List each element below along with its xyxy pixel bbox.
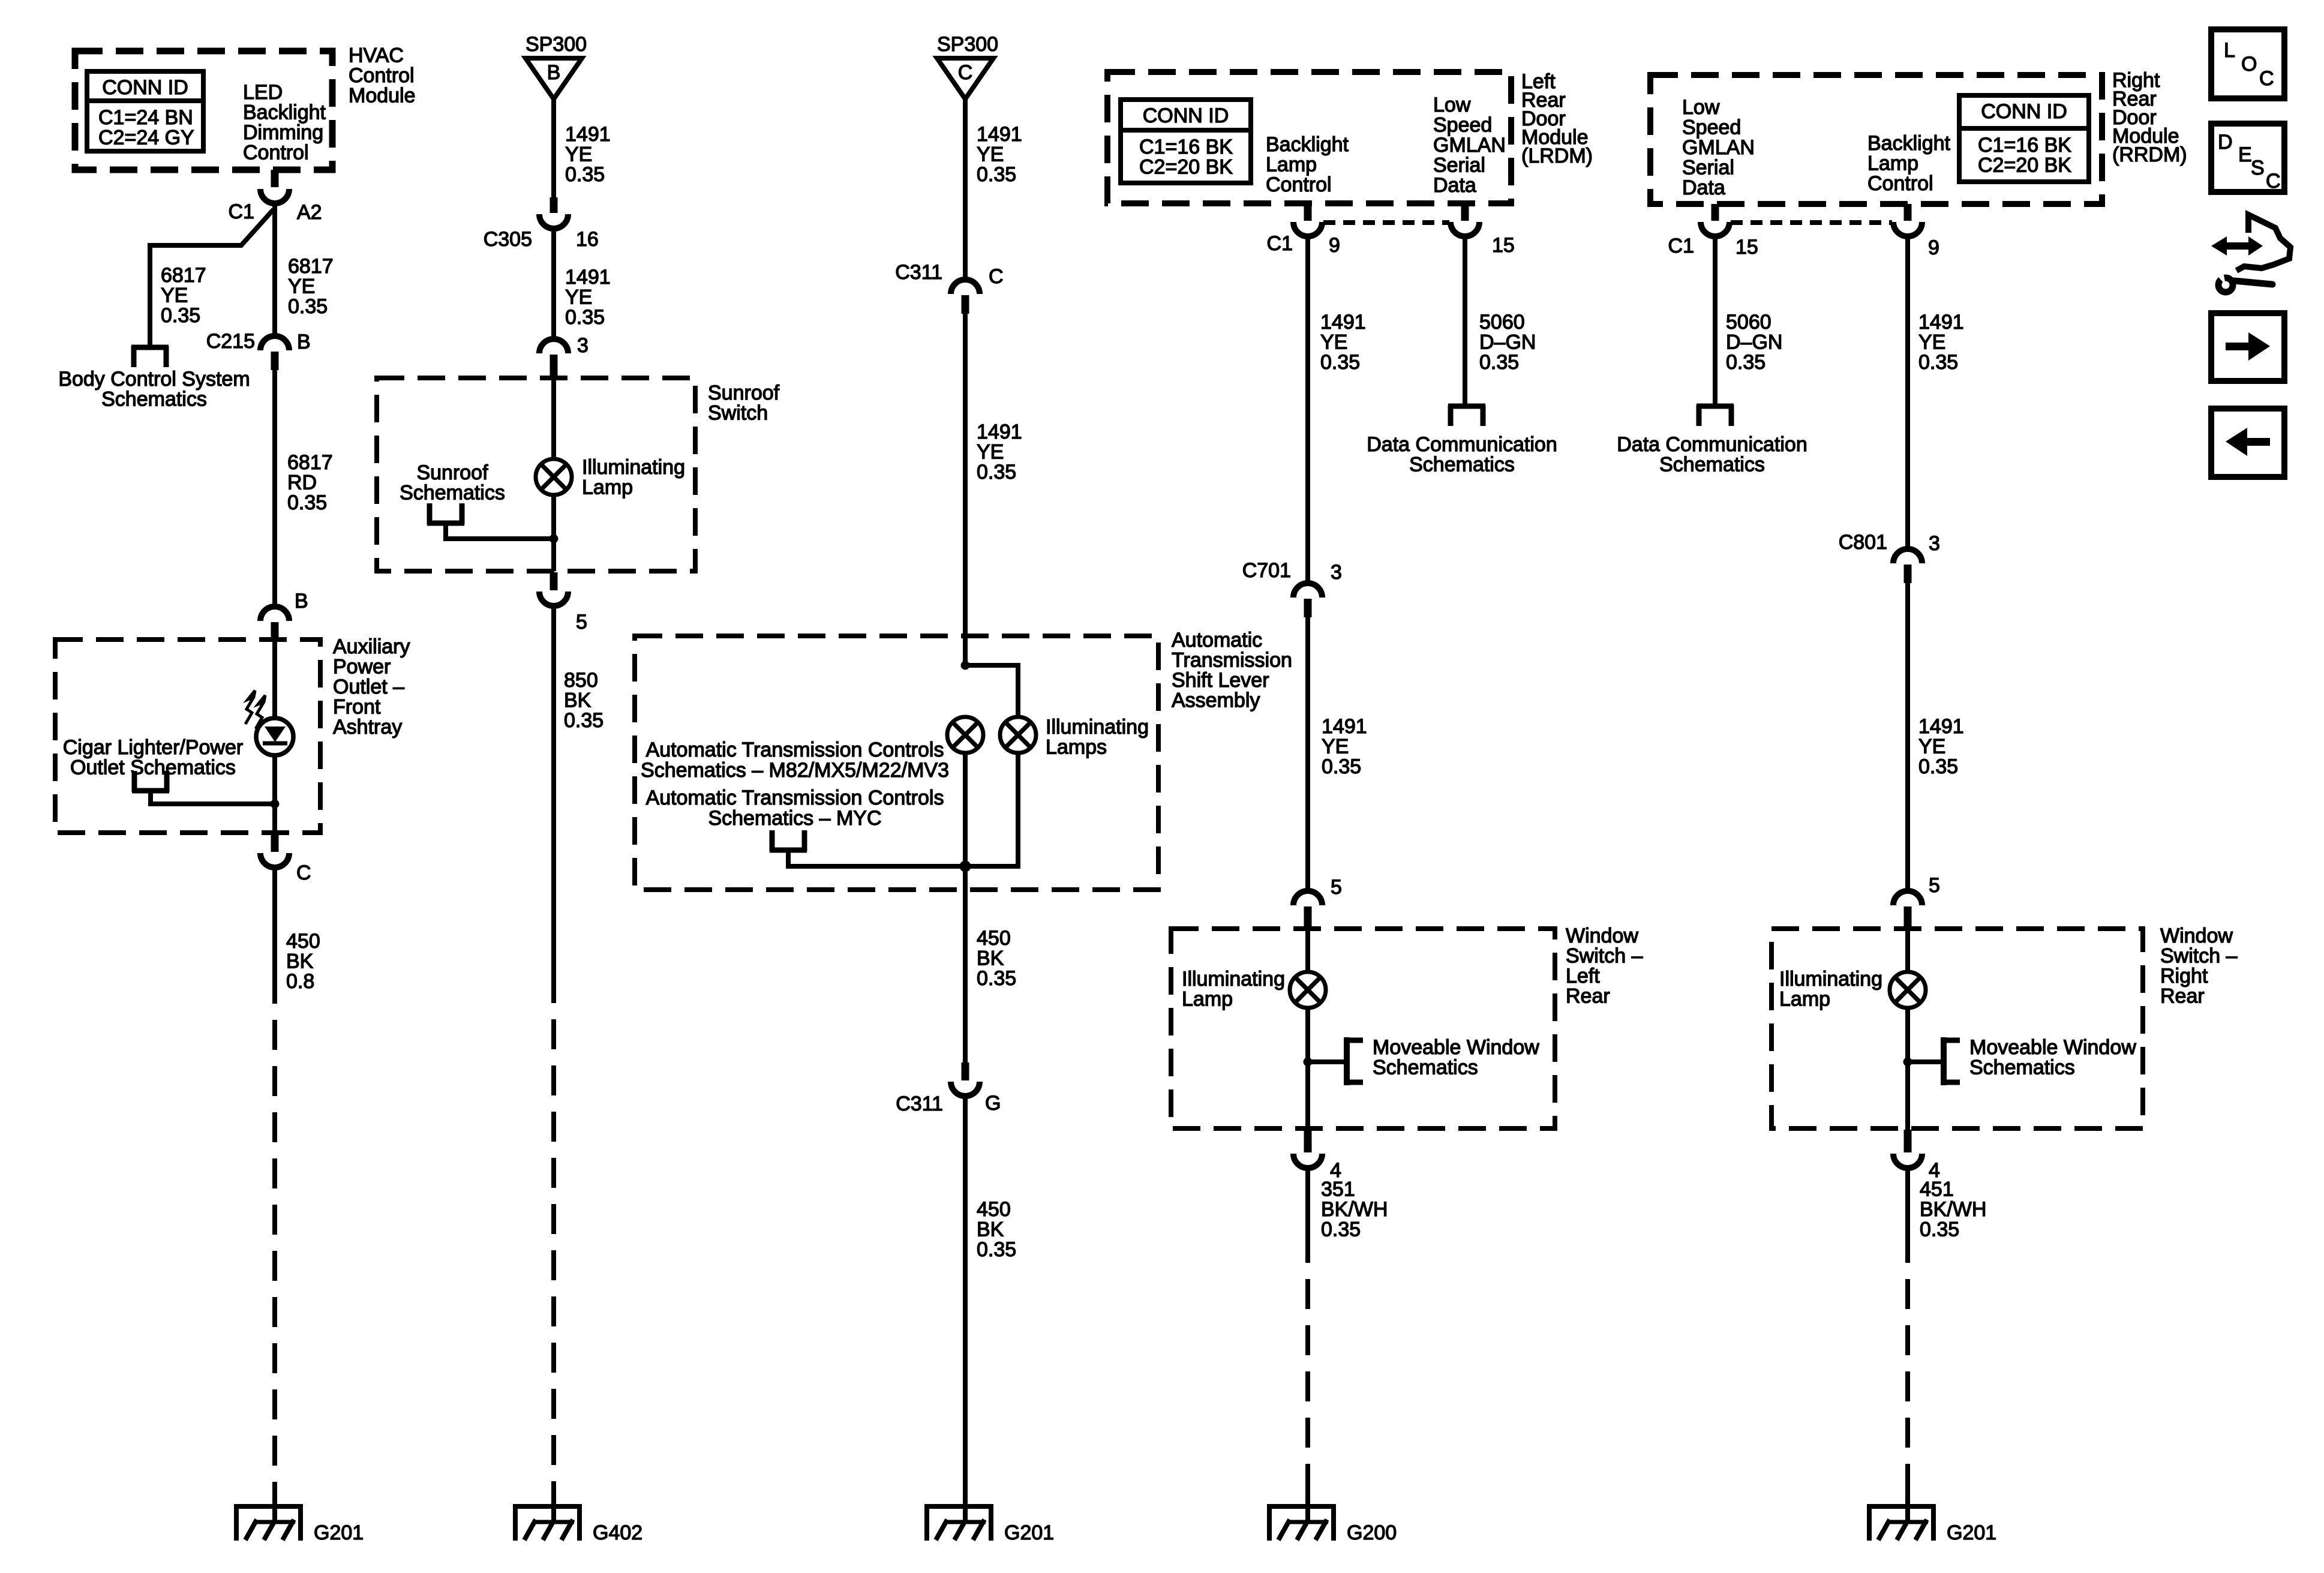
- svg-text:351: 351: [1321, 1178, 1355, 1201]
- LED cigar lighter illumination diode: [256, 718, 293, 755]
- svg-text:6817: 6817: [288, 255, 334, 278]
- svg-text:0.35: 0.35: [288, 295, 328, 318]
- svg-text:Rear: Rear: [2160, 985, 2205, 1008]
- bracket tail to wire: [151, 792, 273, 804]
- svg-text:CONN ID: CONN ID: [102, 76, 188, 99]
- wire: lamp to box bottom (left): [1305, 1008, 1310, 1130]
- ground G201 (column 5): [1867, 1487, 1936, 1541]
- svg-text:Schematics – M82/MX5/M22/MV3: Schematics – M82/MX5/M22/MV3: [641, 759, 949, 782]
- wire: branch to Body Control System (diagonal + horizontal + vertical): [150, 209, 274, 346]
- illuminating lamp (window switch left): [1290, 972, 1326, 1008]
- splice pack SP300 triangle C: [937, 58, 993, 99]
- svg-text:3: 3: [577, 334, 588, 357]
- svg-text:Automatic: Automatic: [1172, 629, 1262, 652]
- svg-text:0.35: 0.35: [161, 304, 200, 327]
- svg-text:C2=24 GY: C2=24 GY: [98, 127, 194, 149]
- connector C305 pin 16 (stub and cup): [550, 197, 558, 213]
- svg-text:Module: Module: [349, 85, 416, 107]
- svg-text:C801: C801: [1839, 531, 1887, 554]
- wire: into aux box to LED: [272, 640, 277, 719]
- svg-text:GMLAN: GMLAN: [1433, 134, 1506, 157]
- wire: right lamp down to junction: [965, 753, 1018, 866]
- svg-text:Rear: Rear: [1566, 985, 1610, 1008]
- svg-text:CONN ID: CONN ID: [1143, 104, 1229, 127]
- svg-text:6817: 6817: [287, 451, 333, 474]
- svg-text:YE: YE: [977, 441, 1004, 464]
- ground G201 (column 1): [234, 1487, 303, 1541]
- wire: solid below connector C: [272, 867, 277, 1004]
- svg-text:L: L: [2224, 39, 2235, 62]
- junction dot (lamp branch bottom): [960, 861, 971, 872]
- svg-text:Transmission: Transmission: [1172, 649, 1292, 672]
- svg-text:Backlight: Backlight: [1266, 133, 1349, 156]
- wire: solid below connector 4 (right): [1905, 1167, 1910, 1263]
- svg-text:YE: YE: [1322, 736, 1349, 758]
- svg-text:G201: G201: [1947, 1521, 1996, 1544]
- svg-text:0.35: 0.35: [565, 163, 605, 186]
- connector 5 of window switch right rear (dome and stub): [1893, 891, 1922, 905]
- wire: into sunroof box to lamp: [551, 378, 556, 460]
- svg-text:YE: YE: [1918, 331, 1945, 354]
- svg-text:Sunroof: Sunroof: [416, 461, 488, 484]
- svg-text:0.35: 0.35: [1321, 1218, 1361, 1241]
- svg-text:Data Communication: Data Communication: [1617, 433, 1807, 456]
- svg-text:C: C: [296, 861, 311, 884]
- wire: LRDM pin 9 to C701: [1305, 235, 1310, 584]
- svg-text:Illuminating: Illuminating: [1046, 716, 1149, 739]
- svg-text:Outlet Schematics: Outlet Schematics: [70, 757, 236, 779]
- RRDM pin 9 (stub and cup): [1904, 204, 1912, 221]
- svg-text:1491: 1491: [977, 123, 1022, 146]
- svg-text:9: 9: [1329, 234, 1340, 257]
- svg-text:1491: 1491: [565, 123, 611, 146]
- svg-text:BK: BK: [977, 1218, 1004, 1241]
- svg-text:1491: 1491: [1918, 715, 1964, 738]
- svg-text:Window: Window: [2160, 924, 2233, 947]
- svg-text:E: E: [2238, 143, 2252, 166]
- svg-text:Serial: Serial: [1682, 157, 1734, 179]
- svg-text:B: B: [547, 61, 561, 84]
- svg-text:1491: 1491: [1322, 715, 1367, 738]
- svg-text:Serial: Serial: [1433, 154, 1485, 177]
- svg-text:C2=20 BK: C2=20 BK: [1139, 156, 1233, 179]
- component box: Auxiliary Power Outlet - Front Ashtray: [55, 640, 320, 833]
- wire: C801 to connector 5 (right): [1905, 583, 1910, 892]
- svg-text:0.35: 0.35: [977, 163, 1016, 186]
- svg-text:Body Control System: Body Control System: [58, 368, 250, 391]
- junction dot (lamp branch top): [961, 661, 970, 670]
- CONN ID table (RRDM): [1959, 95, 2089, 182]
- module box: Left Rear Door Module: [1107, 72, 1511, 203]
- svg-text:YE: YE: [565, 143, 592, 166]
- LRDM pin 15 (stub and cup): [1461, 203, 1469, 221]
- svg-text:A2: A2: [297, 201, 322, 224]
- wire: dashed to ground G200: [1305, 1279, 1310, 1524]
- svg-text:BK: BK: [564, 689, 591, 712]
- icon box LOC: [2211, 29, 2284, 98]
- svg-text:5: 5: [1929, 874, 1940, 897]
- CONN ID table (LRDM): [1121, 100, 1251, 183]
- svg-text:Speed: Speed: [1682, 116, 1741, 139]
- bracket: goes to Moveable Window Schematics (right): [1942, 1037, 1960, 1085]
- svg-text:5: 5: [576, 611, 587, 634]
- svg-text:15: 15: [1736, 236, 1758, 259]
- svg-text:C215: C215: [206, 330, 255, 353]
- svg-text:BK: BK: [286, 950, 314, 973]
- svg-text:0.35: 0.35: [565, 306, 605, 329]
- svg-text:SP300: SP300: [937, 33, 998, 56]
- wire: lamp to box bottom: [551, 495, 556, 571]
- connector C801 pin 3 (dome and stub): [1893, 549, 1922, 563]
- svg-text:Control: Control: [1867, 172, 1933, 195]
- svg-text:Control: Control: [1266, 173, 1332, 196]
- svg-text:(RRDM): (RRDM): [2112, 143, 2187, 166]
- wire: triangle to C305: [551, 99, 556, 197]
- bracket: goes to Body Control System Schematics: [131, 346, 169, 367]
- component box: Automatic Transmission Shift Lever Assembly: [635, 636, 1158, 890]
- svg-text:Lamp: Lamp: [1266, 154, 1317, 176]
- wire: triangle to C311: [963, 99, 968, 281]
- svg-text:1491: 1491: [1918, 311, 1964, 334]
- svg-text:0.35: 0.35: [977, 461, 1016, 484]
- icon: wire routing with wrench: [2236, 215, 2290, 271]
- svg-text:C305: C305: [484, 228, 532, 251]
- svg-text:Power: Power: [333, 656, 391, 679]
- connector pin A2 of HVAC C1 (stub and cup): [271, 170, 279, 187]
- wire: dashed to ground G201: [272, 1020, 277, 1524]
- svg-text:6817: 6817: [161, 264, 206, 287]
- junction dot (window right): [1903, 1058, 1912, 1067]
- svg-text:Schematics – MYC: Schematics – MYC: [708, 807, 881, 830]
- wire: into window box to lamp (left): [1305, 929, 1310, 972]
- svg-text:Schematics: Schematics: [1659, 454, 1765, 476]
- svg-text:C: C: [2259, 67, 2274, 90]
- svg-text:CONN ID: CONN ID: [1981, 100, 2067, 123]
- icon box right arrow: [2211, 313, 2284, 381]
- svg-text:C2=20 BK: C2=20 BK: [1978, 154, 2071, 177]
- svg-text:Cigar Lighter/Power: Cigar Lighter/Power: [63, 736, 243, 759]
- connector 4 below window box left (stub and cup): [1304, 1130, 1312, 1152]
- junction dot (cigar lighter): [271, 800, 280, 809]
- splice pack SP300 triangle B: [526, 58, 582, 99]
- svg-text:Shift Lever: Shift Lever: [1172, 669, 1269, 692]
- illuminating lamp (sunroof switch): [536, 459, 572, 495]
- svg-text:Ashtray: Ashtray: [333, 716, 402, 739]
- svg-text:Data Communication: Data Communication: [1367, 433, 1557, 456]
- svg-text:Automatic Transmission Control: Automatic Transmission Controls: [646, 739, 944, 761]
- svg-text:Right: Right: [2160, 965, 2208, 987]
- branch to moveable window bracket (right): [1908, 1059, 1942, 1064]
- svg-text:C: C: [2266, 170, 2281, 193]
- connector C (stub and cup): [271, 834, 279, 852]
- svg-text:450: 450: [286, 930, 320, 953]
- ground G200: [1267, 1487, 1336, 1541]
- svg-text:Illuminating: Illuminating: [582, 456, 685, 479]
- svg-text:C311: C311: [896, 1092, 943, 1115]
- connector B of aux power outlet (dome and stub): [260, 607, 289, 621]
- svg-text:450: 450: [977, 927, 1011, 950]
- svg-text:(LRDM): (LRDM): [1521, 145, 1593, 167]
- connector 5 of window switch left rear (dome and stub): [1293, 891, 1322, 905]
- junction dot (sunroof): [550, 535, 559, 544]
- svg-text:Low: Low: [1682, 96, 1720, 119]
- svg-text:D: D: [2218, 131, 2233, 154]
- icon box DESC: [2211, 124, 2284, 192]
- svg-text:YE: YE: [288, 275, 315, 298]
- svg-text:C1: C1: [1267, 232, 1293, 255]
- svg-text:Backlight: Backlight: [1867, 132, 1951, 155]
- bracket tail (MYC): [788, 851, 963, 866]
- svg-text:D–GN: D–GN: [1726, 331, 1782, 354]
- ground G402: [513, 1487, 582, 1541]
- svg-text:0.35: 0.35: [1918, 351, 1958, 374]
- wire: HVAC pin down to C215: [272, 202, 277, 337]
- svg-text:B: B: [295, 590, 308, 613]
- svg-text:B: B: [297, 331, 311, 353]
- bracket: goes to Cigar Lighter/Power Outlet Schematics: [132, 771, 169, 792]
- wire: C215 to connector B: [272, 370, 277, 608]
- LED arrows: [245, 691, 265, 729]
- svg-text:Illuminating: Illuminating: [1779, 968, 1882, 990]
- svg-text:Window: Window: [1566, 924, 1638, 947]
- svg-text:0.35: 0.35: [1322, 755, 1361, 778]
- svg-text:Schematics: Schematics: [1969, 1056, 2075, 1079]
- svg-text:C311: C311: [895, 261, 942, 284]
- component box: Window Switch - Right Rear: [1771, 929, 2143, 1128]
- wire: C311 G to ground: [963, 1096, 968, 1524]
- wire: C311 to auto transmission box: [963, 314, 968, 668]
- svg-text:C1=16 BK: C1=16 BK: [1978, 134, 2071, 157]
- bracket: goes to Data Communication Schematics (RRDM): [1697, 405, 1734, 426]
- svg-text:Speed: Speed: [1433, 114, 1492, 137]
- svg-text:0.35: 0.35: [977, 967, 1016, 990]
- svg-text:G: G: [985, 1092, 1001, 1115]
- svg-text:Automatic Transmission Control: Automatic Transmission Controls: [646, 786, 944, 809]
- svg-text:GMLAN: GMLAN: [1682, 136, 1755, 159]
- wire: dashed to ground G402: [551, 1019, 556, 1524]
- svg-text:YE: YE: [161, 284, 188, 307]
- connector C311 pin G (stub and cup): [962, 1062, 969, 1080]
- svg-text:RD: RD: [287, 472, 317, 494]
- svg-text:3: 3: [1929, 532, 1940, 555]
- svg-text:HVAC: HVAC: [349, 44, 404, 67]
- svg-text:Data: Data: [1433, 174, 1476, 197]
- svg-text:3: 3: [1331, 561, 1342, 584]
- svg-text:Control: Control: [349, 64, 415, 87]
- svg-text:C701: C701: [1242, 559, 1291, 582]
- bracket: goes to Moveable Window Schematics (left): [1346, 1037, 1363, 1085]
- svg-text:BK/WH: BK/WH: [1321, 1198, 1388, 1221]
- illuminating lamp (window switch right): [1890, 972, 1926, 1008]
- svg-text:Lamp: Lamp: [1867, 152, 1918, 175]
- svg-text:Illuminating: Illuminating: [1182, 968, 1285, 990]
- svg-text:1491: 1491: [565, 266, 611, 289]
- wire: C701 to connector 5: [1305, 617, 1310, 892]
- svg-text:YE: YE: [565, 286, 592, 309]
- wire: lamp to box bottom (right): [1905, 1008, 1910, 1130]
- connector C701 pin 3 (dome and stub): [1293, 583, 1322, 598]
- svg-text:YE: YE: [1918, 736, 1945, 758]
- wire: left lamp through junction to C311 G: [963, 753, 968, 1062]
- CONN ID table (HVAC): [87, 71, 203, 151]
- component box: Sunroof Switch: [377, 378, 695, 571]
- svg-text:1491: 1491: [1320, 311, 1366, 334]
- svg-text:YE: YE: [1320, 331, 1347, 354]
- connector C311 pin C (dome and stub): [951, 280, 980, 294]
- wire: solid below connector 4 (left): [1305, 1167, 1310, 1263]
- svg-text:5060: 5060: [1479, 311, 1525, 334]
- svg-text:G200: G200: [1347, 1521, 1397, 1544]
- dashed connector face line (LRDM): [1323, 220, 1449, 225]
- svg-text:LED: LED: [243, 81, 283, 104]
- connector 3 of sunroof switch (dome and stub): [539, 339, 568, 353]
- svg-text:O: O: [2241, 53, 2257, 76]
- svg-text:9: 9: [1928, 236, 1939, 259]
- ground G201 (column 3): [924, 1487, 993, 1541]
- svg-text:0.35: 0.35: [977, 1238, 1016, 1261]
- svg-text:Dimming: Dimming: [243, 121, 323, 144]
- wire: into window box to lamp (right): [1905, 929, 1910, 972]
- svg-text:850: 850: [564, 669, 598, 692]
- svg-text:Lamp: Lamp: [1779, 988, 1830, 1011]
- wire: RRDM pin 15 to data bracket: [1713, 235, 1718, 406]
- svg-text:Lamp: Lamp: [582, 476, 633, 499]
- connector 5 below sunroof box (stub and cup): [550, 572, 558, 590]
- svg-text:C1: C1: [1668, 235, 1694, 257]
- svg-text:Switch: Switch: [708, 402, 768, 425]
- svg-text:0.8: 0.8: [286, 970, 314, 993]
- svg-text:5060: 5060: [1726, 311, 1771, 334]
- svg-text:1491: 1491: [977, 421, 1022, 443]
- svg-text:Schematics: Schematics: [400, 482, 505, 505]
- svg-text:Sunroof: Sunroof: [708, 382, 780, 404]
- svg-text:Outlet –: Outlet –: [333, 676, 404, 698]
- svg-text:0.35: 0.35: [1920, 1218, 1959, 1241]
- wire: LED to connector C: [272, 755, 277, 834]
- svg-text:Lamps: Lamps: [1046, 736, 1107, 759]
- svg-text:450: 450: [977, 1198, 1011, 1221]
- svg-text:Schematics: Schematics: [101, 388, 207, 411]
- LRDM pin 9 (stub and cup): [1304, 203, 1312, 221]
- svg-text:SP300: SP300: [526, 33, 587, 56]
- svg-text:YE: YE: [977, 143, 1004, 166]
- bracket tail to wire (sunroof): [446, 524, 552, 539]
- svg-text:Switch –: Switch –: [2160, 945, 2238, 968]
- svg-text:15: 15: [1492, 234, 1515, 257]
- module box: HVAC Control Module: [75, 51, 332, 170]
- wire: RRDM pin 9 to C801: [1905, 235, 1910, 550]
- svg-text:C1=16 BK: C1=16 BK: [1139, 136, 1233, 158]
- icon: double arrow: [2211, 236, 2263, 256]
- svg-text:Assembly: Assembly: [1172, 689, 1260, 712]
- svg-text:C: C: [958, 61, 973, 84]
- svg-text:Switch –: Switch –: [1566, 945, 1643, 968]
- svg-text:C: C: [989, 265, 1004, 288]
- illuminating lamp left (shift lever): [947, 717, 983, 753]
- svg-text:Backlight: Backlight: [243, 101, 326, 124]
- svg-text:G402: G402: [593, 1521, 642, 1544]
- wire: LRDM pin 15 to data bracket: [1463, 235, 1467, 406]
- wire: dashed to ground G201 (right): [1905, 1279, 1910, 1524]
- connector 4 below window box right (stub and cup): [1904, 1130, 1912, 1152]
- svg-text:16: 16: [576, 228, 599, 251]
- bracket: goes to Sunroof Schematics: [427, 503, 464, 524]
- connector C215 pin B (dome and stub): [260, 336, 289, 350]
- svg-text:0.35: 0.35: [1726, 351, 1765, 374]
- svg-text:0.35: 0.35: [564, 709, 603, 732]
- wire: C305 to connector 3: [551, 229, 556, 340]
- svg-text:D–GN: D–GN: [1479, 331, 1536, 354]
- svg-text:0.35: 0.35: [287, 491, 327, 514]
- wire: branch to right lamp: [965, 665, 1018, 718]
- illuminating lamp right (shift lever): [1000, 717, 1036, 753]
- svg-text:451: 451: [1920, 1178, 1954, 1201]
- dashed connector face line (RRDM): [1731, 220, 1892, 225]
- junction dot (window left): [1304, 1058, 1313, 1067]
- svg-text:Front: Front: [333, 696, 381, 719]
- svg-text:Left: Left: [1566, 965, 1600, 987]
- svg-text:5: 5: [1331, 876, 1342, 899]
- component box: Window Switch - Left Rear: [1171, 929, 1555, 1128]
- svg-text:0.35: 0.35: [1918, 755, 1958, 778]
- svg-text:Moveable Window: Moveable Window: [1969, 1036, 2136, 1059]
- svg-text:0.35: 0.35: [1479, 351, 1519, 374]
- svg-text:Moveable Window: Moveable Window: [1373, 1036, 1539, 1059]
- svg-text:Auxiliary: Auxiliary: [333, 635, 410, 658]
- branch to moveable window bracket (left): [1308, 1059, 1346, 1064]
- svg-text:BK: BK: [977, 947, 1004, 970]
- svg-text:S: S: [2251, 157, 2265, 179]
- bracket: goes to Data Communication Schematics (LRDM): [1448, 405, 1485, 426]
- icon box left arrow: [2211, 409, 2284, 477]
- svg-text:G201: G201: [314, 1521, 364, 1544]
- svg-text:Schematics: Schematics: [1409, 454, 1515, 476]
- module box: Right Rear Door Module: [1650, 75, 2102, 204]
- svg-text:Low: Low: [1433, 94, 1471, 116]
- bracket: goes to Automatic Transmission Controls Schematics: [770, 830, 807, 851]
- svg-text:0.35: 0.35: [1320, 351, 1360, 374]
- svg-text:C1: C1: [229, 200, 254, 223]
- RRDM pin 15 (stub and cup): [1712, 204, 1719, 221]
- svg-text:Schematics: Schematics: [1373, 1056, 1478, 1079]
- wire: solid below connector 5: [551, 605, 556, 1003]
- svg-text:BK/WH: BK/WH: [1920, 1198, 1986, 1221]
- svg-text:Lamp: Lamp: [1182, 988, 1233, 1011]
- svg-text:G201: G201: [1004, 1521, 1054, 1544]
- svg-text:C1=24 BN: C1=24 BN: [98, 106, 193, 129]
- svg-text:Data: Data: [1682, 176, 1725, 199]
- svg-text:Control: Control: [243, 141, 309, 164]
